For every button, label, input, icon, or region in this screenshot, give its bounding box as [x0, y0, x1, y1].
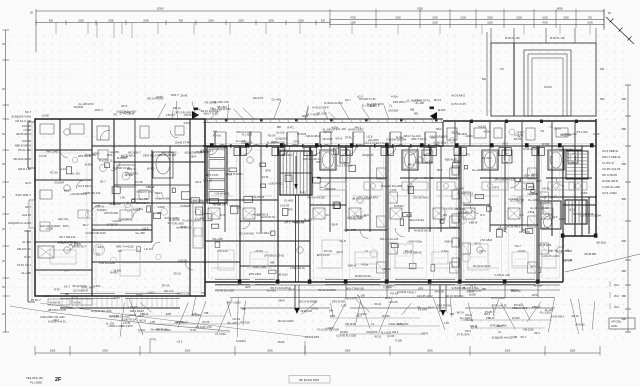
svg-text:AW: AW — [600, 67, 605, 71]
svg-text:FL+1200: FL+1200 — [540, 310, 551, 314]
top dimension lines — [30, 7, 604, 53]
step corner annotations — [538, 241, 607, 263]
svg-text:R-PC: R-PC — [63, 224, 69, 228]
svg-text:FD-SA: FD-SA — [213, 133, 221, 137]
left block core walls — [40, 119, 205, 242]
svg-text:25x45: 25x45 — [121, 155, 129, 159]
svg-text:AW-2 PS: AW-2 PS — [253, 96, 264, 100]
svg-text:M-50 PL x90: M-50 PL x90 — [550, 36, 565, 40]
svg-text:1500: 1500 — [516, 16, 522, 19]
svg-text:WC-8: WC-8 — [336, 136, 343, 140]
left block kitchen counter — [94, 200, 204, 256]
svg-text:MB CL: MB CL — [173, 106, 181, 110]
svg-text:GB-R AL-100: GB-R AL-100 — [236, 130, 252, 134]
west balcony lower segment — [27, 230, 29, 302]
svg-text:W61-T WC-8: W61-T WC-8 — [411, 137, 427, 141]
bottom left title — [26, 376, 62, 385]
svg-text:SK-7: SK-7 — [168, 221, 174, 225]
svg-text:FD-SA: FD-SA — [232, 317, 240, 321]
svg-text:WC-8: WC-8 — [474, 241, 481, 245]
svg-text:LGS-65: LGS-65 — [178, 258, 187, 262]
svg-text:GB-R R-PC: GB-R R-PC — [17, 247, 31, 251]
svg-text:MB: MB — [157, 211, 161, 215]
svg-text:AW-2: AW-2 — [408, 163, 415, 167]
svg-text:GB-R: GB-R — [190, 155, 197, 159]
SW boxed notes — [40, 299, 92, 324]
svg-text:4-50a EPS: 4-50a EPS — [344, 228, 357, 232]
svg-text:GL+450: GL+450 — [136, 231, 146, 235]
svg-text:AL-100: AL-100 — [337, 127, 346, 131]
svg-text:FD-SA H=2100: FD-SA H=2100 — [307, 196, 325, 200]
svg-text:PS SK-7: PS SK-7 — [31, 298, 42, 302]
ground line bottom left — [10, 306, 230, 331]
svg-text:OP-3: OP-3 — [293, 139, 300, 143]
diagonal break mark top-right — [606, 12, 634, 44]
bottom dimension line — [35, 341, 600, 356]
svg-text:2F: 2F — [55, 377, 62, 383]
svg-text:PS: PS — [201, 291, 205, 295]
svg-text:1:50: 1:50 — [150, 320, 156, 324]
right annotation column — [602, 149, 621, 195]
svg-text:SD-16 SUS304: SD-16 SUS304 — [446, 294, 464, 298]
svg-text:x1000 HW-13A: x1000 HW-13A — [83, 191, 101, 195]
svg-text:700: 700 — [588, 16, 593, 19]
svg-text:KBE-W HW-13A: KBE-W HW-13A — [157, 153, 176, 157]
svg-text:2FL+500: 2FL+500 — [239, 321, 250, 325]
svg-text:UB-1616 1:50: UB-1616 1:50 — [195, 325, 212, 329]
svg-text:WC-8: WC-8 — [457, 311, 464, 315]
svg-text:1500: 1500 — [268, 19, 274, 22]
bottom center scale box — [289, 376, 330, 384]
svg-text:EPS W-900: EPS W-900 — [332, 300, 346, 304]
NE room fixtures — [447, 128, 568, 143]
svg-text:UB-1616: UB-1616 — [230, 204, 241, 208]
svg-text:V-100: V-100 — [395, 339, 402, 343]
NE rooms annotations — [451, 125, 600, 146]
svg-text:LGS-65 ST-PL: LGS-65 ST-PL — [413, 98, 430, 102]
svg-text:25x45: 25x45 — [255, 249, 263, 253]
svg-text:KBE-W: KBE-W — [146, 185, 155, 189]
svg-text:AL-100: AL-100 — [357, 294, 366, 298]
door swing arcs corridor — [209, 145, 441, 155]
svg-text:4-50a: 4-50a — [136, 207, 143, 211]
svg-text:WC-8: WC-8 — [528, 185, 535, 189]
middle-left room walls — [205, 150, 596, 266]
SE small labels — [610, 281, 620, 309]
svg-text:GL+450: GL+450 — [110, 150, 120, 154]
svg-text:ST-PL: ST-PL — [345, 135, 353, 139]
svg-text:2FL+500: 2FL+500 — [481, 156, 492, 160]
svg-text:R-PC: R-PC — [288, 126, 294, 130]
svg-text:GL+450: GL+450 — [195, 216, 205, 220]
svg-text:t12.5: t12.5 — [569, 208, 575, 212]
svg-text:PS: PS — [466, 153, 470, 157]
svg-text:980: 980 — [622, 197, 627, 201]
grid bubbles — [64, 129, 563, 253]
svg-text:1:50: 1:50 — [444, 321, 450, 325]
svg-text:1:50 GB-R: 1:50 GB-R — [480, 238, 492, 242]
west ledge lower — [29, 200, 35, 228]
svg-text:4-50a: 4-50a — [164, 328, 171, 332]
svg-text:SD-16: SD-16 — [554, 126, 562, 130]
svg-text:3050: 3050 — [267, 350, 273, 353]
svg-text:8050: 8050 — [557, 7, 563, 11]
svg-text:V-100 W61-T: V-100 W61-T — [256, 231, 272, 235]
east staircase upper — [566, 151, 588, 179]
svg-text:980: 980 — [622, 127, 627, 131]
svg-text:AL-100: AL-100 — [213, 202, 222, 206]
svg-text:R-PC: R-PC — [54, 288, 60, 292]
svg-text:CL: CL — [389, 104, 393, 108]
svg-text:R-PC: R-PC — [190, 328, 196, 332]
svg-text:980: 980 — [622, 317, 627, 321]
left block extra walls — [35, 119, 201, 292]
svg-text:FL+1200: FL+1200 — [460, 316, 471, 320]
svg-text:W-900: W-900 — [438, 108, 446, 112]
svg-text:d13@200: d13@200 — [109, 202, 121, 206]
svg-text:EPS: EPS — [370, 104, 375, 108]
svg-text:d13@200 H=2100: d13@200 H=2100 — [492, 336, 514, 340]
svg-text:590: 590 — [600, 97, 605, 101]
svg-text:4-50a: 4-50a — [361, 262, 368, 266]
svg-text:UB-1616: UB-1616 — [596, 241, 607, 245]
svg-text:EPS: EPS — [288, 207, 293, 211]
svg-text:OP-3: OP-3 — [465, 329, 472, 333]
left block extra text — [97, 121, 205, 231]
svg-text:CL: CL — [371, 322, 375, 326]
svg-text:ST-PL SK-7: ST-PL SK-7 — [17, 263, 32, 267]
svg-text:AL-100 EPS: AL-100 EPS — [305, 335, 320, 339]
svg-text:x1000: x1000 — [518, 249, 526, 253]
svg-text:t=0.35: t=0.35 — [23, 128, 31, 132]
svg-text:ST-PL t=0.35: ST-PL t=0.35 — [492, 304, 508, 308]
party wall closets — [377, 146, 549, 282]
svg-text:SK-7: SK-7 — [520, 335, 526, 339]
svg-text:OP-3: OP-3 — [121, 104, 128, 108]
svg-text:t=0.35 H=2100: t=0.35 H=2100 — [522, 147, 540, 151]
bottom leader lines — [120, 296, 595, 337]
svg-text:TEL-PNL (P): TEL-PNL (P) — [26, 376, 43, 380]
corridor inner face line — [206, 143, 594, 145]
svg-text:AL-100 4-50a: AL-100 4-50a — [463, 286, 479, 290]
annex penthouse top right — [482, 28, 605, 116]
svg-text:HW-13A SUS304: HW-13A SUS304 — [40, 224, 61, 228]
svg-text:x1000 R-PC: x1000 R-PC — [268, 181, 282, 185]
svg-text:MB: MB — [242, 307, 246, 311]
svg-text:ST-PL EPS: ST-PL EPS — [457, 333, 470, 337]
svg-text:25x45 WC-8: 25x45 WC-8 — [16, 132, 31, 136]
svg-text:GL+450: GL+450 — [472, 168, 482, 172]
svg-text:25x45: 25x45 — [278, 340, 286, 344]
svg-text:2FL+500: 2FL+500 — [193, 199, 204, 203]
svg-text:OP-3: OP-3 — [534, 331, 541, 335]
svg-text:AL-100: AL-100 — [564, 259, 573, 263]
svg-text:900: 900 — [179, 19, 184, 22]
svg-text:R-6: R-6 — [364, 213, 369, 217]
svg-text:t12.5: t12.5 — [98, 245, 104, 249]
svg-text:AW-2: AW-2 — [484, 312, 491, 316]
svg-text:d13@200 1:50: d13@200 1:50 — [185, 150, 203, 154]
svg-text:AL-100: AL-100 — [276, 131, 285, 135]
svg-text:980: 980 — [622, 269, 627, 273]
svg-text:PS AL-100: PS AL-100 — [18, 148, 31, 152]
svg-text:MB: MB — [414, 112, 418, 116]
south balcony lines — [60, 285, 560, 308]
svg-text:H=2100 AL-100: H=2100 AL-100 — [324, 101, 343, 105]
east walls — [540, 197, 597, 234]
svg-text:4-50a: 4-50a — [184, 121, 191, 125]
svg-text:MB: MB — [513, 335, 517, 339]
svg-text:PS: PS — [64, 268, 68, 272]
svg-text:H=2100 GB-R: H=2100 GB-R — [312, 106, 328, 110]
svg-text:d13@200: d13@200 — [324, 187, 336, 191]
east bath block — [541, 201, 561, 229]
svg-text:2000: 2000 — [143, 19, 149, 22]
svg-text:ST-PL: ST-PL — [149, 338, 157, 342]
south joint bars — [295, 195, 447, 316]
svg-text:OP-3: OP-3 — [502, 142, 509, 146]
svg-text:R-6: R-6 — [406, 213, 411, 217]
svg-text:980: 980 — [622, 294, 627, 298]
svg-text:MB: MB — [329, 308, 333, 312]
svg-text:SK-7: SK-7 — [25, 110, 31, 114]
svg-text:FL+1200: FL+1200 — [528, 198, 539, 202]
svg-text:GL+450: GL+450 — [267, 288, 277, 292]
svg-text:W-900: W-900 — [279, 148, 287, 152]
second property line — [40, 303, 310, 337]
svg-text:H=2100 CL: H=2100 CL — [397, 290, 411, 294]
svg-text:KBE-W WC-8: KBE-W WC-8 — [15, 144, 32, 148]
svg-text:V-100 AW-2: V-100 AW-2 — [551, 315, 565, 319]
svg-text:V-100: V-100 — [158, 205, 165, 209]
svg-text:PS: PS — [500, 67, 504, 71]
svg-text:R-PC: R-PC — [518, 130, 524, 134]
svg-text:W61-T: W61-T — [171, 93, 179, 97]
svg-text:R-6: R-6 — [519, 213, 524, 217]
svg-text:EPS W-900: EPS W-900 — [105, 211, 119, 215]
svg-text:EPS: EPS — [166, 312, 171, 316]
left annotation column — [8, 110, 32, 275]
svg-text:SD-16 H=2100: SD-16 H=2100 — [555, 249, 573, 253]
svg-text:SK-7: SK-7 — [517, 134, 523, 138]
svg-text:t12.5: t12.5 — [177, 339, 183, 343]
svg-text:EPS W61-T: EPS W61-T — [393, 100, 407, 104]
svg-text:d13@200 4-50a: d13@200 4-50a — [12, 115, 32, 119]
svg-text:H=2100 WC-8: H=2100 WC-8 — [414, 229, 431, 233]
svg-text:4-50a SD-16: 4-50a SD-16 — [290, 266, 305, 270]
svg-text:1300: 1300 — [350, 22, 356, 25]
svg-text:KBE-W t12.5: KBE-W t12.5 — [512, 306, 528, 310]
svg-text:t12.5: t12.5 — [367, 135, 373, 139]
svg-text:R-PC: R-PC — [114, 296, 120, 300]
svg-text:MB: MB — [213, 129, 217, 133]
svg-text:ST-PL: ST-PL — [136, 293, 144, 297]
svg-text:2FL+500 HW-13A: 2FL+500 HW-13A — [495, 178, 516, 182]
svg-text:2FL+500: 2FL+500 — [316, 111, 327, 115]
svg-text:8F PLAN 1/50: 8F PLAN 1/50 — [299, 378, 319, 382]
svg-text:GB-R GB-R: GB-R GB-R — [306, 134, 320, 138]
svg-text:FD-SA: FD-SA — [162, 284, 170, 288]
svg-text:W-900 GB-R: W-900 GB-R — [602, 179, 618, 183]
svg-text:PS V-100: PS V-100 — [577, 130, 589, 134]
svg-text:W61-T: W61-T — [436, 127, 444, 131]
svg-text:SD-16: SD-16 — [434, 98, 442, 102]
svg-text:SD-16: SD-16 — [470, 324, 478, 328]
svg-text:4-50a: 4-50a — [94, 284, 101, 288]
svg-text:LGS-65 AW-2: LGS-65 AW-2 — [413, 196, 429, 200]
svg-text:t=0.35 LGS-65: t=0.35 LGS-65 — [602, 167, 621, 171]
svg-text:1000: 1000 — [542, 16, 548, 19]
svg-text:R-PC: R-PC — [24, 255, 31, 259]
svg-text:9750: 9750 — [417, 7, 423, 11]
svg-text:KBE-W: KBE-W — [486, 316, 495, 320]
svg-text:t=0.35: t=0.35 — [387, 334, 395, 338]
svg-text:FD-SA: FD-SA — [324, 249, 333, 253]
svg-text:AW-2 FD-SA: AW-2 FD-SA — [409, 218, 424, 222]
svg-text:SD-16: SD-16 — [174, 271, 182, 275]
svg-text:t12.5: t12.5 — [357, 95, 363, 99]
svg-text:EPS: EPS — [266, 169, 271, 173]
svg-text:4-50a: 4-50a — [483, 129, 490, 133]
room annotations upper — [39, 147, 601, 236]
svg-text:4-50a: 4-50a — [391, 95, 398, 99]
svg-text:UB-1616 SUS304: UB-1616 SUS304 — [580, 214, 601, 218]
svg-text:W-900: W-900 — [382, 314, 390, 318]
svg-text:MB: MB — [205, 311, 209, 315]
svg-text:R-PC W61-T: R-PC W61-T — [16, 193, 32, 197]
svg-text:SUS304: SUS304 — [54, 180, 64, 184]
svg-text:HW-13A: HW-13A — [217, 249, 228, 253]
svg-text:MB: MB — [277, 125, 281, 129]
svg-text:d13@200: d13@200 — [362, 153, 374, 157]
svg-text:2FL+500: 2FL+500 — [173, 222, 184, 226]
svg-text:CL: CL — [417, 305, 421, 309]
svg-text:x1000: x1000 — [147, 291, 155, 295]
svg-text:FD-SA: FD-SA — [50, 171, 58, 175]
svg-text:OP-3: OP-3 — [479, 249, 486, 253]
svg-text:t=0.35: t=0.35 — [135, 180, 143, 184]
svg-text:PS AW-2: PS AW-2 — [282, 153, 293, 157]
svg-text:980: 980 — [622, 162, 627, 166]
svg-text:R-PC t=0.35: R-PC t=0.35 — [451, 102, 466, 106]
svg-text:SK-7: SK-7 — [83, 223, 89, 227]
svg-text:AW-2 GL+450: AW-2 GL+450 — [132, 197, 149, 201]
svg-text:H=2100: H=2100 — [435, 289, 445, 293]
wall pier blocks — [210, 118, 597, 283]
svg-text:FD-SA: FD-SA — [268, 134, 276, 138]
svg-text:W-900: W-900 — [542, 142, 550, 146]
svg-text:SK-7: SK-7 — [410, 291, 416, 295]
svg-text:980: 980 — [622, 239, 627, 243]
svg-text:SK-7: SK-7 — [356, 314, 362, 318]
svg-text:SD-16: SD-16 — [405, 249, 413, 253]
leader lines top — [158, 100, 389, 118]
svg-text:15300: 15300 — [156, 7, 164, 11]
svg-text:KBE-W: KBE-W — [469, 220, 478, 224]
corridor door frame ticks — [212, 144, 430, 147]
meter box column — [207, 147, 227, 203]
interior partition walls — [35, 119, 592, 296]
bathroom fixtures — [85, 150, 587, 263]
svg-text:EPS: EPS — [531, 264, 536, 268]
svg-text:OP-3: OP-3 — [493, 186, 500, 190]
svg-text:GL+450: GL+450 — [21, 271, 31, 275]
svg-text:PS: PS — [197, 107, 201, 111]
svg-text:GB-R: GB-R — [331, 223, 338, 227]
svg-text:PS: PS — [539, 198, 543, 202]
svg-text:1000: 1000 — [432, 16, 438, 19]
svg-text:EPS: EPS — [532, 293, 537, 297]
svg-text:25x45 ST-PL: 25x45 ST-PL — [175, 141, 191, 145]
svg-text:M-50 PL x90: M-50 PL x90 — [505, 36, 520, 40]
svg-text:1:50 25x45: 1:50 25x45 — [251, 195, 264, 199]
svg-text:1500: 1500 — [432, 22, 438, 25]
bottom-left annotation rows — [31, 298, 138, 328]
svg-text:MB: MB — [270, 261, 274, 265]
svg-text:1500: 1500 — [395, 16, 401, 19]
svg-text:LGS-65 AW-2: LGS-65 AW-2 — [417, 294, 433, 298]
svg-text:SK-7 x1000: SK-7 x1000 — [227, 300, 241, 304]
svg-text:t12.5 KBE-W: t12.5 KBE-W — [602, 149, 619, 153]
svg-text:GL+450: GL+450 — [272, 97, 282, 101]
background dot grid — [10, 28, 632, 346]
corridor annotations — [213, 125, 449, 145]
svg-text:SD-16: SD-16 — [542, 186, 550, 190]
svg-text:1500: 1500 — [487, 22, 493, 25]
svg-text:SD-16: SD-16 — [71, 295, 79, 299]
svg-text:SUS304: SUS304 — [389, 108, 399, 112]
svg-text:OP-3: OP-3 — [125, 111, 132, 115]
svg-text:2800: 2800 — [345, 350, 351, 353]
svg-text:CL 4-50a: CL 4-50a — [215, 332, 226, 336]
svg-text:x1000: x1000 — [156, 95, 164, 99]
svg-text:CL: CL — [498, 330, 502, 334]
left dimension line — [2, 30, 9, 332]
svg-text:2200: 2200 — [611, 324, 617, 328]
svg-text:SK-7: SK-7 — [428, 305, 434, 309]
svg-text:V-100 AL-100: V-100 AL-100 — [494, 273, 510, 277]
svg-text:4-50a: 4-50a — [528, 210, 535, 214]
annotation text top leaders — [42, 93, 466, 118]
svg-text:V-100 W61-T: V-100 W61-T — [433, 141, 449, 145]
svg-text:AL-100: AL-100 — [106, 322, 115, 326]
svg-text:WC-8: WC-8 — [374, 302, 381, 306]
svg-text:R-6: R-6 — [548, 213, 553, 217]
window sills south wall — [60, 280, 535, 299]
svg-text:W-900 x1000: W-900 x1000 — [348, 128, 364, 132]
south wall annotations dense — [44, 283, 543, 300]
svg-text:W-900 FD-SA: W-900 FD-SA — [355, 274, 371, 278]
svg-text:V-100: V-100 — [390, 188, 397, 192]
svg-text:2500: 2500 — [570, 350, 576, 353]
svg-text:UB-1616 t=0.35: UB-1616 t=0.35 — [48, 308, 67, 312]
svg-text:SK-7: SK-7 — [515, 244, 521, 248]
svg-text:FD-SA H=2100: FD-SA H=2100 — [473, 264, 491, 268]
svg-text:1300: 1300 — [460, 16, 466, 19]
svg-text:GB-R: GB-R — [496, 324, 503, 328]
svg-text:PS: PS — [541, 129, 545, 133]
svg-text:R-6: R-6 — [257, 213, 262, 217]
svg-text:d13@200: d13@200 — [301, 309, 313, 313]
svg-text:t12.5 d13@200: t12.5 d13@200 — [430, 135, 448, 139]
svg-text:LGS-65: LGS-65 — [203, 178, 212, 182]
svg-text:GL+450: GL+450 — [284, 199, 294, 203]
svg-text:d13@200 FL+1200: d13@200 FL+1200 — [8, 221, 32, 225]
svg-text:V-100 GL+450: V-100 GL+450 — [602, 185, 621, 189]
svg-text:W-900 SK: W-900 SK — [50, 302, 62, 305]
svg-text:SUS304 t=0.35: SUS304 t=0.35 — [48, 320, 66, 324]
svg-text:SD-16: SD-16 — [571, 314, 579, 318]
